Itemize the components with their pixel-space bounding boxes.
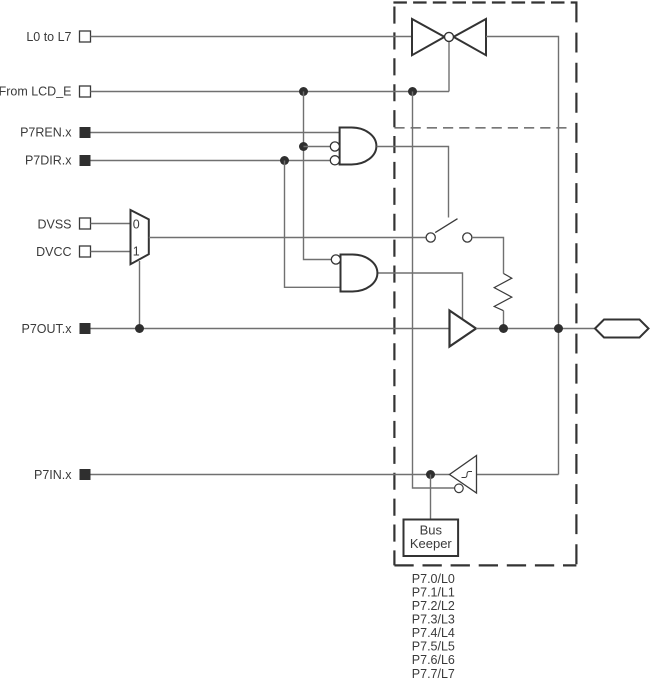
- svg-text:P7REN.x: P7REN.x: [20, 126, 72, 140]
- node junction LCD_E at x303: [299, 87, 308, 96]
- input buffer U5 triangle: [450, 456, 477, 494]
- svg-text:1: 1: [133, 245, 140, 259]
- svg-text:P7OUT.x: P7OUT.x: [21, 322, 72, 336]
- terminal square L0 to L7: [80, 31, 91, 42]
- wire switch to resistor: [472, 238, 504, 274]
- output driver U3 triangle: [450, 311, 477, 347]
- node junction LCD_E at x412: [408, 87, 417, 96]
- svg-text:P7.6/L6: P7.6/L6: [412, 653, 455, 667]
- transmission gate left triangle: [412, 19, 445, 55]
- svg-text:DVCC: DVCC: [36, 245, 71, 259]
- dashed module boundary box top edge: [393, 1, 577, 3]
- terminal square DVCC: [80, 246, 91, 257]
- node junction P7OUT mux select: [135, 324, 144, 333]
- dashed internal separator line: [394, 127, 566, 129]
- svg-text:P7.5/L5: P7.5/L5: [412, 640, 455, 654]
- wire P7DIR.x to NAND1 bottom bubble input: [91, 160, 331, 162]
- AND gate U1 bottom input bubble: [330, 156, 339, 165]
- terminal square P7OUT.x: [80, 323, 91, 334]
- bus keeper box: [404, 520, 459, 557]
- wire U1 output to switch control: [377, 147, 449, 218]
- wire P7OUT.x to output driver: [91, 328, 450, 330]
- wire LCD_E branch down x303 to NAND2 top input: [304, 92, 332, 260]
- transmission gate right triangle: [454, 19, 487, 55]
- transmission gate enable bubble: [445, 32, 454, 41]
- node junction NAND1 middle input: [299, 142, 308, 151]
- wire NAND1 middle input stub: [304, 146, 331, 148]
- svg-text:P7DIR.x: P7DIR.x: [25, 154, 72, 168]
- terminal square From LCD_E: [80, 86, 91, 97]
- wire mux output to switch: [149, 237, 426, 239]
- wire LCD_E up to transmission gate enable: [448, 41, 450, 91]
- svg-text:Keeper: Keeper: [410, 536, 453, 551]
- node junction resistor to pad line: [499, 324, 508, 333]
- node junction P7DIR: [280, 156, 289, 165]
- resistor R1 zigzag: [494, 274, 512, 311]
- wire resistor to pad line: [503, 311, 505, 329]
- input buffer U5 hysteresis symbol: [462, 472, 473, 478]
- svg-text:P7.1/L1: P7.1/L1: [412, 585, 455, 599]
- svg-text:P7.2/L2: P7.2/L2: [412, 599, 455, 613]
- node junction pad column: [554, 324, 563, 333]
- svg-text:L0 to L7: L0 to L7: [26, 30, 71, 44]
- wire P7IN.x from input buffer: [91, 474, 450, 476]
- switch S1 left contact: [426, 233, 435, 242]
- AND gate U1 body: [340, 128, 377, 165]
- terminal square P7DIR.x: [80, 155, 91, 166]
- wire From LCD_E horizontal: [91, 91, 450, 93]
- node junction P7IN bus keeper: [426, 470, 435, 479]
- wire U3 enable from NAND2 output: [378, 273, 463, 320]
- wire driver output to pad: [476, 328, 595, 330]
- AND gate U1 middle input bubble: [330, 142, 339, 151]
- wire input buffer input from pad column: [477, 474, 559, 476]
- svg-text:P7IN.x: P7IN.x: [34, 468, 72, 482]
- wire L0 to L7 to transmission gate: [91, 36, 413, 38]
- terminal square P7IN.x: [80, 469, 91, 480]
- dashed module boundary box left edge: [393, 3, 395, 566]
- wire transmission gate output to pad column: [486, 37, 559, 475]
- terminal square P7REN.x: [80, 127, 91, 138]
- svg-text:P7.3/L3: P7.3/L3: [412, 613, 455, 627]
- wire P7DIR branch down x284 to NAND2 bottom input: [285, 161, 341, 288]
- terminal square DVSS: [80, 218, 91, 229]
- mux U2 trapezoid: [131, 210, 149, 264]
- wire mux select from P7OUT: [139, 261, 141, 329]
- wire LCD_E long vertical to input buffer enable: [413, 92, 455, 489]
- pad hexagon: [595, 320, 649, 338]
- svg-text:P7.0/L0: P7.0/L0: [412, 572, 455, 586]
- switch S1 right contact: [463, 233, 472, 242]
- AND gate U4 body (lower): [341, 255, 378, 292]
- dashed module boundary box right edge: [575, 3, 577, 566]
- svg-text:DVSS: DVSS: [37, 217, 71, 231]
- pin name list P7.0/L0 - P7.7/L7: [412, 572, 455, 679]
- wire DVCC to mux input 1: [91, 251, 131, 253]
- switch S1 arm: [435, 219, 457, 233]
- AND gate U4 top input bubble: [331, 255, 340, 264]
- svg-text:From LCD_E: From LCD_E: [0, 85, 72, 99]
- svg-text:P7.7/L7: P7.7/L7: [412, 667, 455, 679]
- input buffer U5 enable bubble: [455, 484, 464, 493]
- wire P7REN.x to NAND1 top input: [91, 132, 340, 134]
- svg-text:0: 0: [133, 218, 140, 232]
- svg-text:P7.4/L4: P7.4/L4: [412, 626, 455, 640]
- dashed module boundary box bottom edge: [394, 564, 576, 566]
- wire bus keeper connection: [430, 475, 432, 520]
- wire DVSS to mux input 0: [91, 223, 131, 225]
